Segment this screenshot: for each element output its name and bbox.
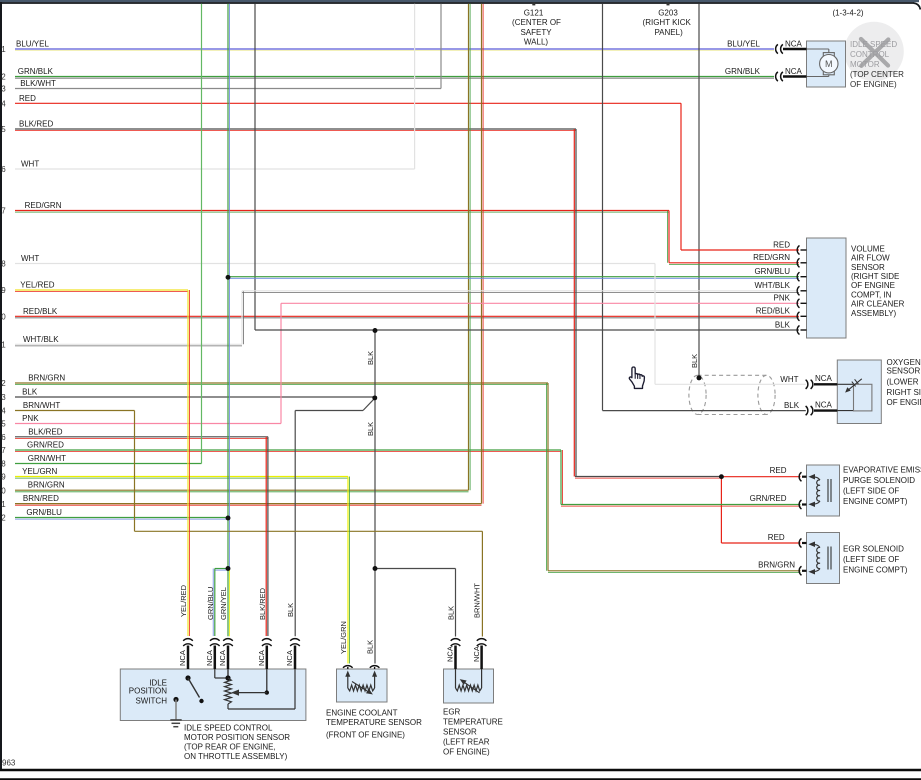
svg-text:0: 0 — [1, 486, 6, 495]
svg-text:SENSOR: SENSOR — [443, 728, 477, 737]
svg-text:2: 2 — [1, 379, 6, 388]
svg-text:SENSOR: SENSOR — [887, 367, 921, 376]
svg-text:4: 4 — [1, 100, 6, 109]
svg-text:RED: RED — [19, 94, 36, 103]
svg-text:MOTOR: MOTOR — [850, 60, 880, 69]
svg-text:6: 6 — [1, 433, 6, 442]
svg-text:WHT/BLK: WHT/BLK — [754, 281, 790, 290]
svg-text:EVAPORATIVE EMISSION: EVAPORATIVE EMISSION — [843, 466, 921, 475]
svg-text:GRN/WHT: GRN/WHT — [28, 454, 66, 463]
svg-text:RED/GRN: RED/GRN — [753, 253, 790, 262]
svg-text:(LEFT SIDE OF: (LEFT SIDE OF — [843, 555, 899, 564]
svg-text:NCA: NCA — [815, 374, 833, 383]
svg-text:NCA: NCA — [285, 650, 294, 666]
svg-text:BRN/WHT: BRN/WHT — [473, 583, 482, 618]
svg-text:ENGINE COMPT): ENGINE COMPT) — [843, 566, 908, 575]
svg-text:WHT/BLK: WHT/BLK — [23, 335, 59, 344]
svg-text:BLK: BLK — [366, 351, 375, 365]
svg-text:(TOP REAR OF ENGINE,: (TOP REAR OF ENGINE, — [184, 742, 276, 751]
svg-text:BRN/WHT: BRN/WHT — [23, 401, 60, 410]
svg-text:WHT: WHT — [780, 375, 798, 384]
svg-text:ASSEMBLY): ASSEMBLY) — [851, 309, 897, 318]
svg-text:PANEL): PANEL) — [654, 28, 683, 37]
svg-text:2: 2 — [1, 514, 6, 523]
svg-text:TEMPERATURE: TEMPERATURE — [443, 717, 503, 726]
svg-text:4: 4 — [1, 407, 6, 416]
svg-text:NCA: NCA — [257, 650, 266, 666]
svg-text:BLK/RED: BLK/RED — [19, 120, 53, 129]
svg-text:GRN/RED: GRN/RED — [27, 441, 64, 450]
svg-text:WHT: WHT — [21, 160, 39, 169]
svg-text:BLK: BLK — [22, 388, 38, 397]
svg-text:7: 7 — [1, 446, 6, 455]
svg-text:GRN/BLK: GRN/BLK — [18, 67, 54, 76]
svg-text:BLU/YEL: BLU/YEL — [16, 40, 49, 49]
svg-text:BLK: BLK — [286, 603, 295, 617]
svg-text:RED/BLK: RED/BLK — [756, 307, 791, 316]
svg-text:PURGE SOLENOID: PURGE SOLENOID — [843, 476, 915, 485]
svg-text:IDLE SPEED: IDLE SPEED — [850, 40, 897, 49]
svg-text:OF ENGINE): OF ENGINE) — [850, 80, 897, 89]
svg-text:SAFETY: SAFETY — [520, 28, 552, 37]
svg-text:BLK: BLK — [447, 606, 456, 620]
svg-text:BLK: BLK — [366, 422, 375, 436]
svg-text:NCA: NCA — [472, 646, 481, 662]
svg-text:ENGINE COMPT): ENGINE COMPT) — [843, 497, 908, 506]
svg-text:0: 0 — [1, 313, 6, 322]
svg-text:SWITCH: SWITCH — [135, 697, 167, 706]
svg-text:(LOWER: (LOWER — [887, 377, 919, 386]
svg-text:GRN/BLU: GRN/BLU — [754, 267, 790, 276]
svg-text:(1-3-4-2): (1-3-4-2) — [832, 8, 863, 17]
svg-text:BRN/RED: BRN/RED — [23, 494, 59, 503]
svg-text:OF ENGINE): OF ENGINE) — [443, 748, 490, 757]
svg-text:(LEFT SIDE OF: (LEFT SIDE OF — [843, 486, 899, 495]
svg-text:3: 3 — [1, 393, 6, 402]
svg-text:(LEFT REAR: (LEFT REAR — [443, 738, 490, 747]
svg-text:GRN/BLK: GRN/BLK — [725, 67, 761, 76]
svg-text:BLK/WHT: BLK/WHT — [20, 79, 56, 88]
svg-text:EGR: EGR — [443, 707, 461, 716]
svg-text:BRN/GRN: BRN/GRN — [28, 374, 65, 383]
svg-text:BRN/GRN: BRN/GRN — [28, 481, 65, 490]
svg-text:8: 8 — [1, 260, 6, 269]
svg-text:TEMPERATURE SENSOR: TEMPERATURE SENSOR — [326, 718, 422, 727]
svg-text:GRN/BLU: GRN/BLU — [206, 587, 215, 620]
svg-text:BLK: BLK — [366, 640, 375, 654]
svg-text:PNK: PNK — [22, 414, 39, 423]
svg-text:(FRONT OF ENGINE): (FRONT OF ENGINE) — [326, 730, 405, 739]
svg-text:WALL): WALL) — [524, 38, 548, 47]
svg-text:RED: RED — [768, 533, 785, 542]
svg-text:GRN/YEL: GRN/YEL — [219, 587, 228, 620]
svg-text:GRN/RED: GRN/RED — [750, 494, 787, 503]
svg-text:MOTOR POSITION SENSOR: MOTOR POSITION SENSOR — [184, 733, 290, 742]
svg-text:POSITION: POSITION — [129, 686, 167, 695]
svg-text:BRN/GRN: BRN/GRN — [758, 561, 795, 570]
svg-text:BLK: BLK — [775, 320, 791, 329]
svg-text:2: 2 — [1, 73, 6, 82]
svg-text:5: 5 — [1, 125, 6, 134]
svg-text:YEL/RED: YEL/RED — [179, 584, 188, 617]
svg-text:RED/GRN: RED/GRN — [25, 201, 62, 210]
svg-text:NCA: NCA — [205, 650, 214, 666]
svg-text:YEL/RED: YEL/RED — [20, 281, 54, 290]
svg-text:NCA: NCA — [178, 650, 187, 666]
svg-text:RIGHT SIDE: RIGHT SIDE — [887, 388, 921, 397]
svg-text:SENSOR: SENSOR — [851, 263, 885, 272]
svg-text:(CENTER OF: (CENTER OF — [512, 18, 561, 27]
svg-text:IDLE SPEED CONTROL: IDLE SPEED CONTROL — [184, 723, 273, 732]
svg-text:9: 9 — [1, 286, 6, 295]
svg-text:5: 5 — [1, 420, 6, 429]
svg-text:(TOP CENTER: (TOP CENTER — [850, 70, 904, 79]
svg-text:M: M — [825, 59, 833, 69]
svg-text:AIR CLEANER: AIR CLEANER — [851, 300, 905, 309]
svg-text:1: 1 — [1, 341, 6, 350]
svg-text:(RIGHT KICK: (RIGHT KICK — [643, 18, 692, 27]
svg-text:OF ENGINE: OF ENGINE — [851, 281, 895, 290]
svg-text:6: 6 — [1, 165, 6, 174]
svg-text:GRN/BLU: GRN/BLU — [26, 508, 62, 517]
svg-text:1: 1 — [1, 45, 6, 54]
svg-text:EGR SOLENOID: EGR SOLENOID — [843, 545, 904, 554]
svg-text:9: 9 — [1, 473, 6, 482]
svg-text:7: 7 — [1, 207, 6, 216]
svg-text:BLK/RED: BLK/RED — [258, 587, 267, 620]
svg-text:BLK/RED: BLK/RED — [28, 427, 62, 436]
svg-text:RED/BLK: RED/BLK — [23, 307, 58, 316]
svg-text:CONTROL: CONTROL — [850, 50, 890, 59]
svg-text:YEL/GRN: YEL/GRN — [339, 621, 348, 654]
svg-text:RED: RED — [770, 466, 787, 475]
svg-text:1: 1 — [1, 500, 6, 509]
svg-text:G203: G203 — [658, 9, 678, 18]
svg-text:NCA: NCA — [815, 401, 833, 410]
svg-text:RED: RED — [773, 240, 790, 249]
svg-text:G121: G121 — [524, 9, 544, 18]
svg-text:BLK: BLK — [690, 354, 699, 368]
svg-text:963: 963 — [2, 759, 16, 768]
svg-text:AIR FLOW: AIR FLOW — [851, 254, 890, 263]
svg-text:NCA: NCA — [218, 650, 227, 666]
svg-text:ON THROTTLE ASSEMBLY): ON THROTTLE ASSEMBLY) — [184, 752, 288, 761]
svg-text:COMPT, IN: COMPT, IN — [851, 290, 892, 299]
svg-text:VOLUME: VOLUME — [851, 244, 885, 253]
svg-text:(RIGHT SIDE: (RIGHT SIDE — [851, 272, 899, 281]
svg-text:YEL/GRN: YEL/GRN — [22, 467, 57, 476]
svg-text:OF ENGINE: OF ENGINE — [887, 398, 921, 407]
svg-text:WHT: WHT — [21, 254, 39, 263]
svg-text:8: 8 — [1, 460, 6, 469]
svg-text:PNK: PNK — [774, 294, 791, 303]
svg-text:ENGINE COOLANT: ENGINE COOLANT — [326, 708, 398, 717]
svg-text:NCA: NCA — [785, 39, 803, 48]
svg-text:NCA: NCA — [446, 646, 455, 662]
svg-text:NCA: NCA — [785, 67, 803, 76]
svg-text:BLU/YEL: BLU/YEL — [727, 39, 760, 48]
svg-text:BLK: BLK — [784, 401, 800, 410]
svg-text:3: 3 — [1, 85, 6, 94]
